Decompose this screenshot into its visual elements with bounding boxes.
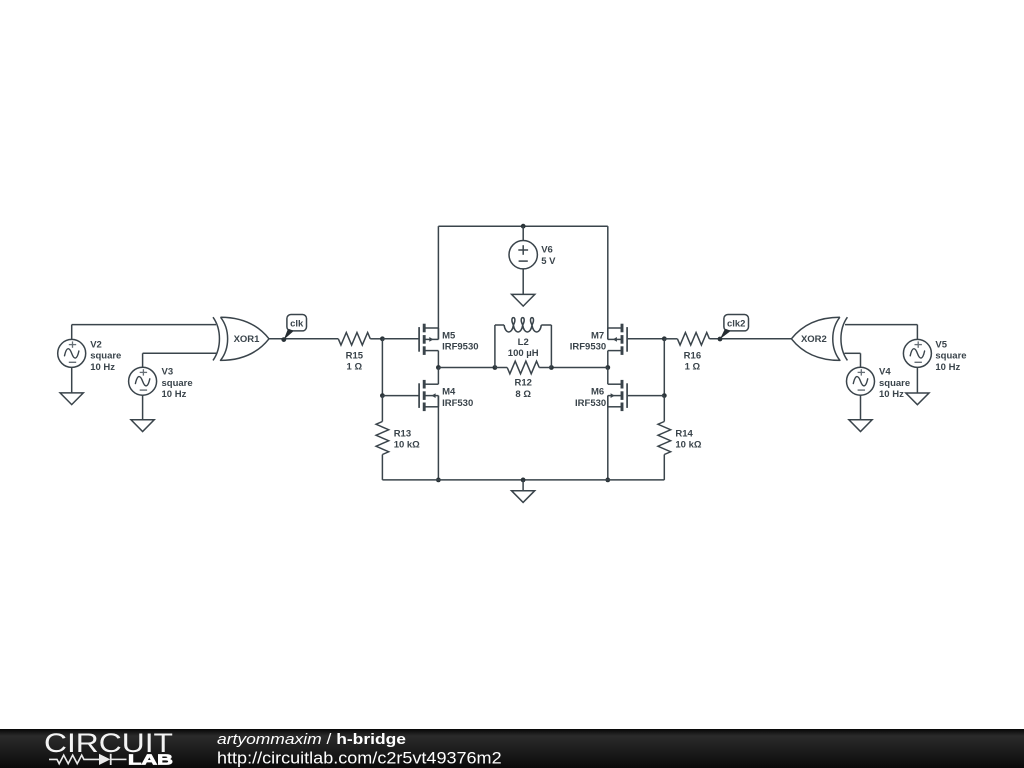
svg-text:100 µH: 100 µH [508, 348, 539, 359]
svg-text:square: square [935, 351, 966, 362]
svg-text:10 kΩ: 10 kΩ [394, 440, 420, 451]
svg-text:R13: R13 [394, 428, 411, 439]
svg-text:clk2: clk2 [727, 318, 746, 329]
svg-text:1 Ω: 1 Ω [685, 362, 701, 373]
svg-text:square: square [879, 378, 910, 389]
svg-text:5 V: 5 V [541, 256, 556, 267]
svg-text:artyommaxim / h-bridge: artyommaxim / h-bridge [217, 732, 406, 748]
svg-text:10 Hz: 10 Hz [935, 362, 960, 373]
svg-text:L2: L2 [518, 337, 529, 348]
svg-text:square: square [162, 378, 193, 389]
svg-text:M7: M7 [591, 331, 604, 342]
svg-text:IRF530: IRF530 [442, 398, 473, 409]
svg-text:R14: R14 [675, 428, 693, 439]
svg-text:R12: R12 [514, 378, 531, 389]
svg-text:V5: V5 [935, 339, 947, 350]
svg-text:IRF530: IRF530 [575, 398, 606, 409]
svg-text:10 kΩ: 10 kΩ [675, 440, 701, 451]
svg-text:M5: M5 [442, 331, 456, 342]
svg-text:IRF9530: IRF9530 [442, 342, 478, 353]
svg-text:LAB: LAB [128, 751, 173, 768]
svg-text:M6: M6 [591, 387, 604, 398]
svg-text:V2: V2 [90, 339, 102, 350]
svg-text:XOR1: XOR1 [234, 334, 261, 345]
svg-text:XOR2: XOR2 [801, 334, 827, 345]
svg-text:IRF9530: IRF9530 [570, 342, 606, 353]
svg-text:8 Ω: 8 Ω [515, 389, 531, 400]
svg-text:V6: V6 [541, 245, 553, 256]
svg-text:square: square [90, 351, 121, 362]
svg-text:10 Hz: 10 Hz [162, 389, 187, 400]
svg-text:10 Hz: 10 Hz [879, 389, 904, 400]
svg-text:clk: clk [290, 318, 304, 329]
svg-text:10 Hz: 10 Hz [90, 362, 115, 373]
svg-text:1 Ω: 1 Ω [347, 362, 363, 373]
svg-text:V4: V4 [879, 367, 891, 378]
svg-text:R16: R16 [684, 351, 701, 362]
svg-text:V3: V3 [162, 367, 174, 378]
svg-text:http://circuitlab.com/c2r5vt49: http://circuitlab.com/c2r5vt49376m2 [217, 748, 502, 767]
svg-text:M4: M4 [442, 387, 456, 398]
svg-text:R15: R15 [346, 351, 364, 362]
